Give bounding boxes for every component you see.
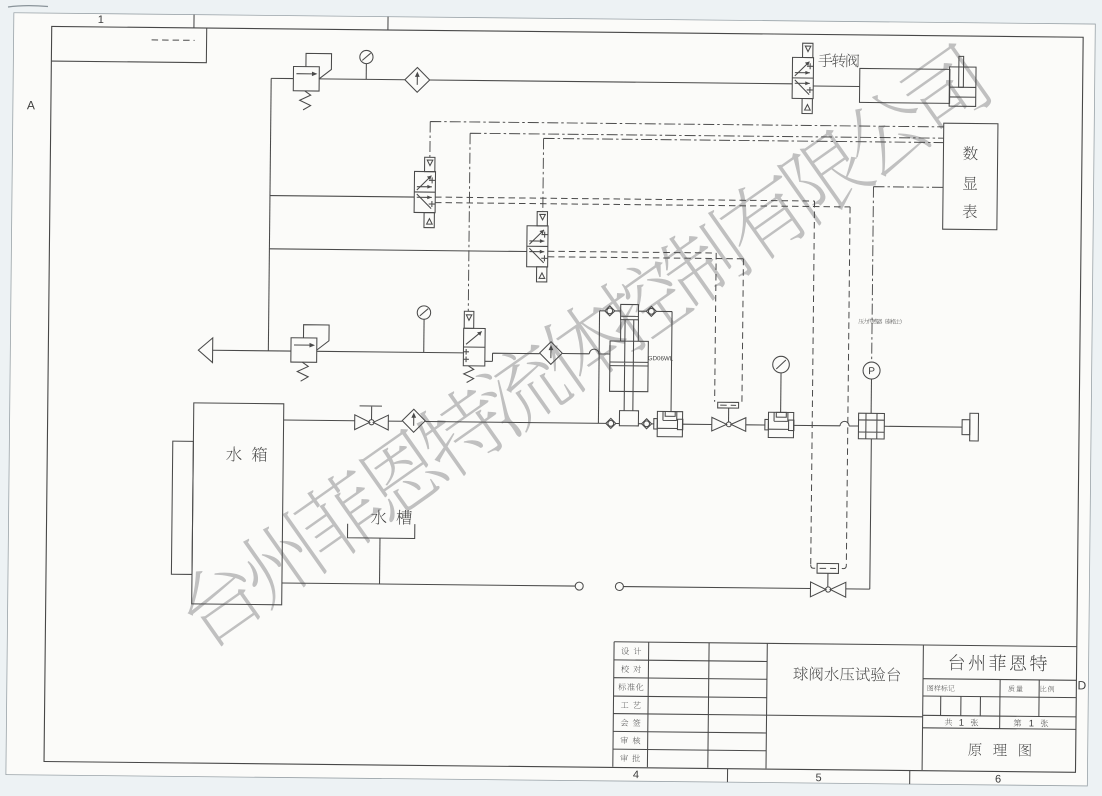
svg-text:GD06WL: GD06WL: [648, 355, 674, 362]
svg-text:5: 5: [815, 772, 821, 784]
svg-text:D: D: [1077, 678, 1086, 692]
svg-text:1: 1: [98, 14, 104, 26]
svg-text:4: 4: [633, 769, 639, 781]
svg-text:P: P: [868, 366, 875, 377]
svg-text:1: 1: [1029, 718, 1034, 729]
svg-text:A: A: [27, 98, 35, 112]
svg-text:1: 1: [959, 718, 964, 729]
svg-text:6: 6: [995, 773, 1001, 785]
